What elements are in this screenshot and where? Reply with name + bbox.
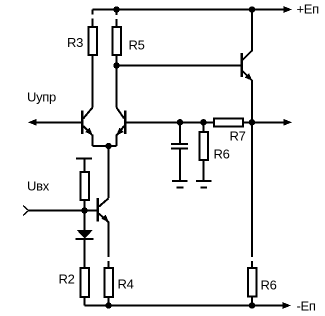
wire Q4 collector to +Ep: [251, 10, 253, 52]
svg-text:R6: R6: [261, 278, 277, 293]
node R6 tap: [200, 119, 206, 125]
transistor Q4: [240, 51, 252, 81]
svg-text:R6: R6: [214, 147, 230, 162]
node emitter join: [105, 143, 111, 149]
wire emitter join: [93, 145, 117, 147]
svg-text:R2: R2: [59, 272, 75, 287]
wire bottom -Ep rail: [85, 305, 284, 307]
transistor Q2: [116, 108, 126, 136]
node input / R1 / diode: [81, 207, 87, 213]
resistor R3: [88, 10, 97, 56]
wire R5 junction to Q4 base: [117, 65, 241, 67]
svg-text:R5: R5: [129, 38, 145, 53]
ground under R6: [196, 181, 212, 188]
power +Ep arrow: [284, 6, 293, 13]
resistor R6 (middle): [199, 122, 208, 180]
Uupr arrow: [28, 119, 37, 126]
wire output: [243, 121, 284, 123]
svg-text:Uвх: Uвх: [27, 179, 50, 194]
wire Q4 emitter down to output node: [251, 80, 253, 122]
svg-text:R3: R3: [67, 35, 83, 50]
resistor R4: [104, 268, 113, 306]
diode VD1: [76, 211, 94, 269]
resistor R6 bottom: [248, 268, 257, 306]
wire right column to R6: [251, 122, 253, 268]
wire Q3 emitter to R4: [108, 222, 110, 269]
node R5 / Q4 base / Q2 collector: [113, 62, 119, 68]
svg-text:+Еп: +Еп: [297, 2, 320, 17]
node capacitor tap: [177, 119, 183, 125]
wire top +Ep rail: [93, 9, 285, 11]
terminal T bar: [76, 158, 92, 160]
resistor R2: [80, 268, 89, 306]
resistor R7: [214, 118, 243, 126]
wire Uupr to Q1 base: [36, 121, 81, 123]
capacitor C1: [171, 122, 188, 180]
input terminal chevron: [23, 206, 29, 216]
svg-text:R4: R4: [118, 277, 134, 292]
wire Q2 collector: [116, 66, 118, 108]
node R4 to rail: [105, 302, 111, 308]
wire Q3 collector: [108, 146, 110, 198]
svg-text:-Еп: -Еп: [297, 299, 316, 314]
resistor R1 (unlabeled): [80, 159, 89, 211]
wire Q2 emitter: [116, 135, 118, 147]
node top rail R5 tap: [113, 6, 119, 12]
svg-text:Uупр: Uупр: [27, 90, 56, 105]
transistor Q3: [96, 198, 109, 222]
resistor R5: [112, 10, 121, 66]
node R6 to rail: [249, 302, 255, 308]
power -Ep arrow: [283, 302, 292, 309]
wire input to Q3 base: [28, 210, 97, 212]
transistor Q1: [81, 108, 93, 136]
wire Q1 emitter: [92, 135, 94, 147]
wire Q2 base to node A: [127, 121, 215, 123]
node top rail Q4 collector tap: [249, 6, 255, 12]
svg-text:R7: R7: [230, 129, 246, 144]
ground under C1: [172, 181, 188, 188]
output arrow: [284, 119, 293, 126]
wire R3 to Q1 collector: [92, 55, 94, 108]
node output / Q4 emitter: [249, 119, 255, 125]
